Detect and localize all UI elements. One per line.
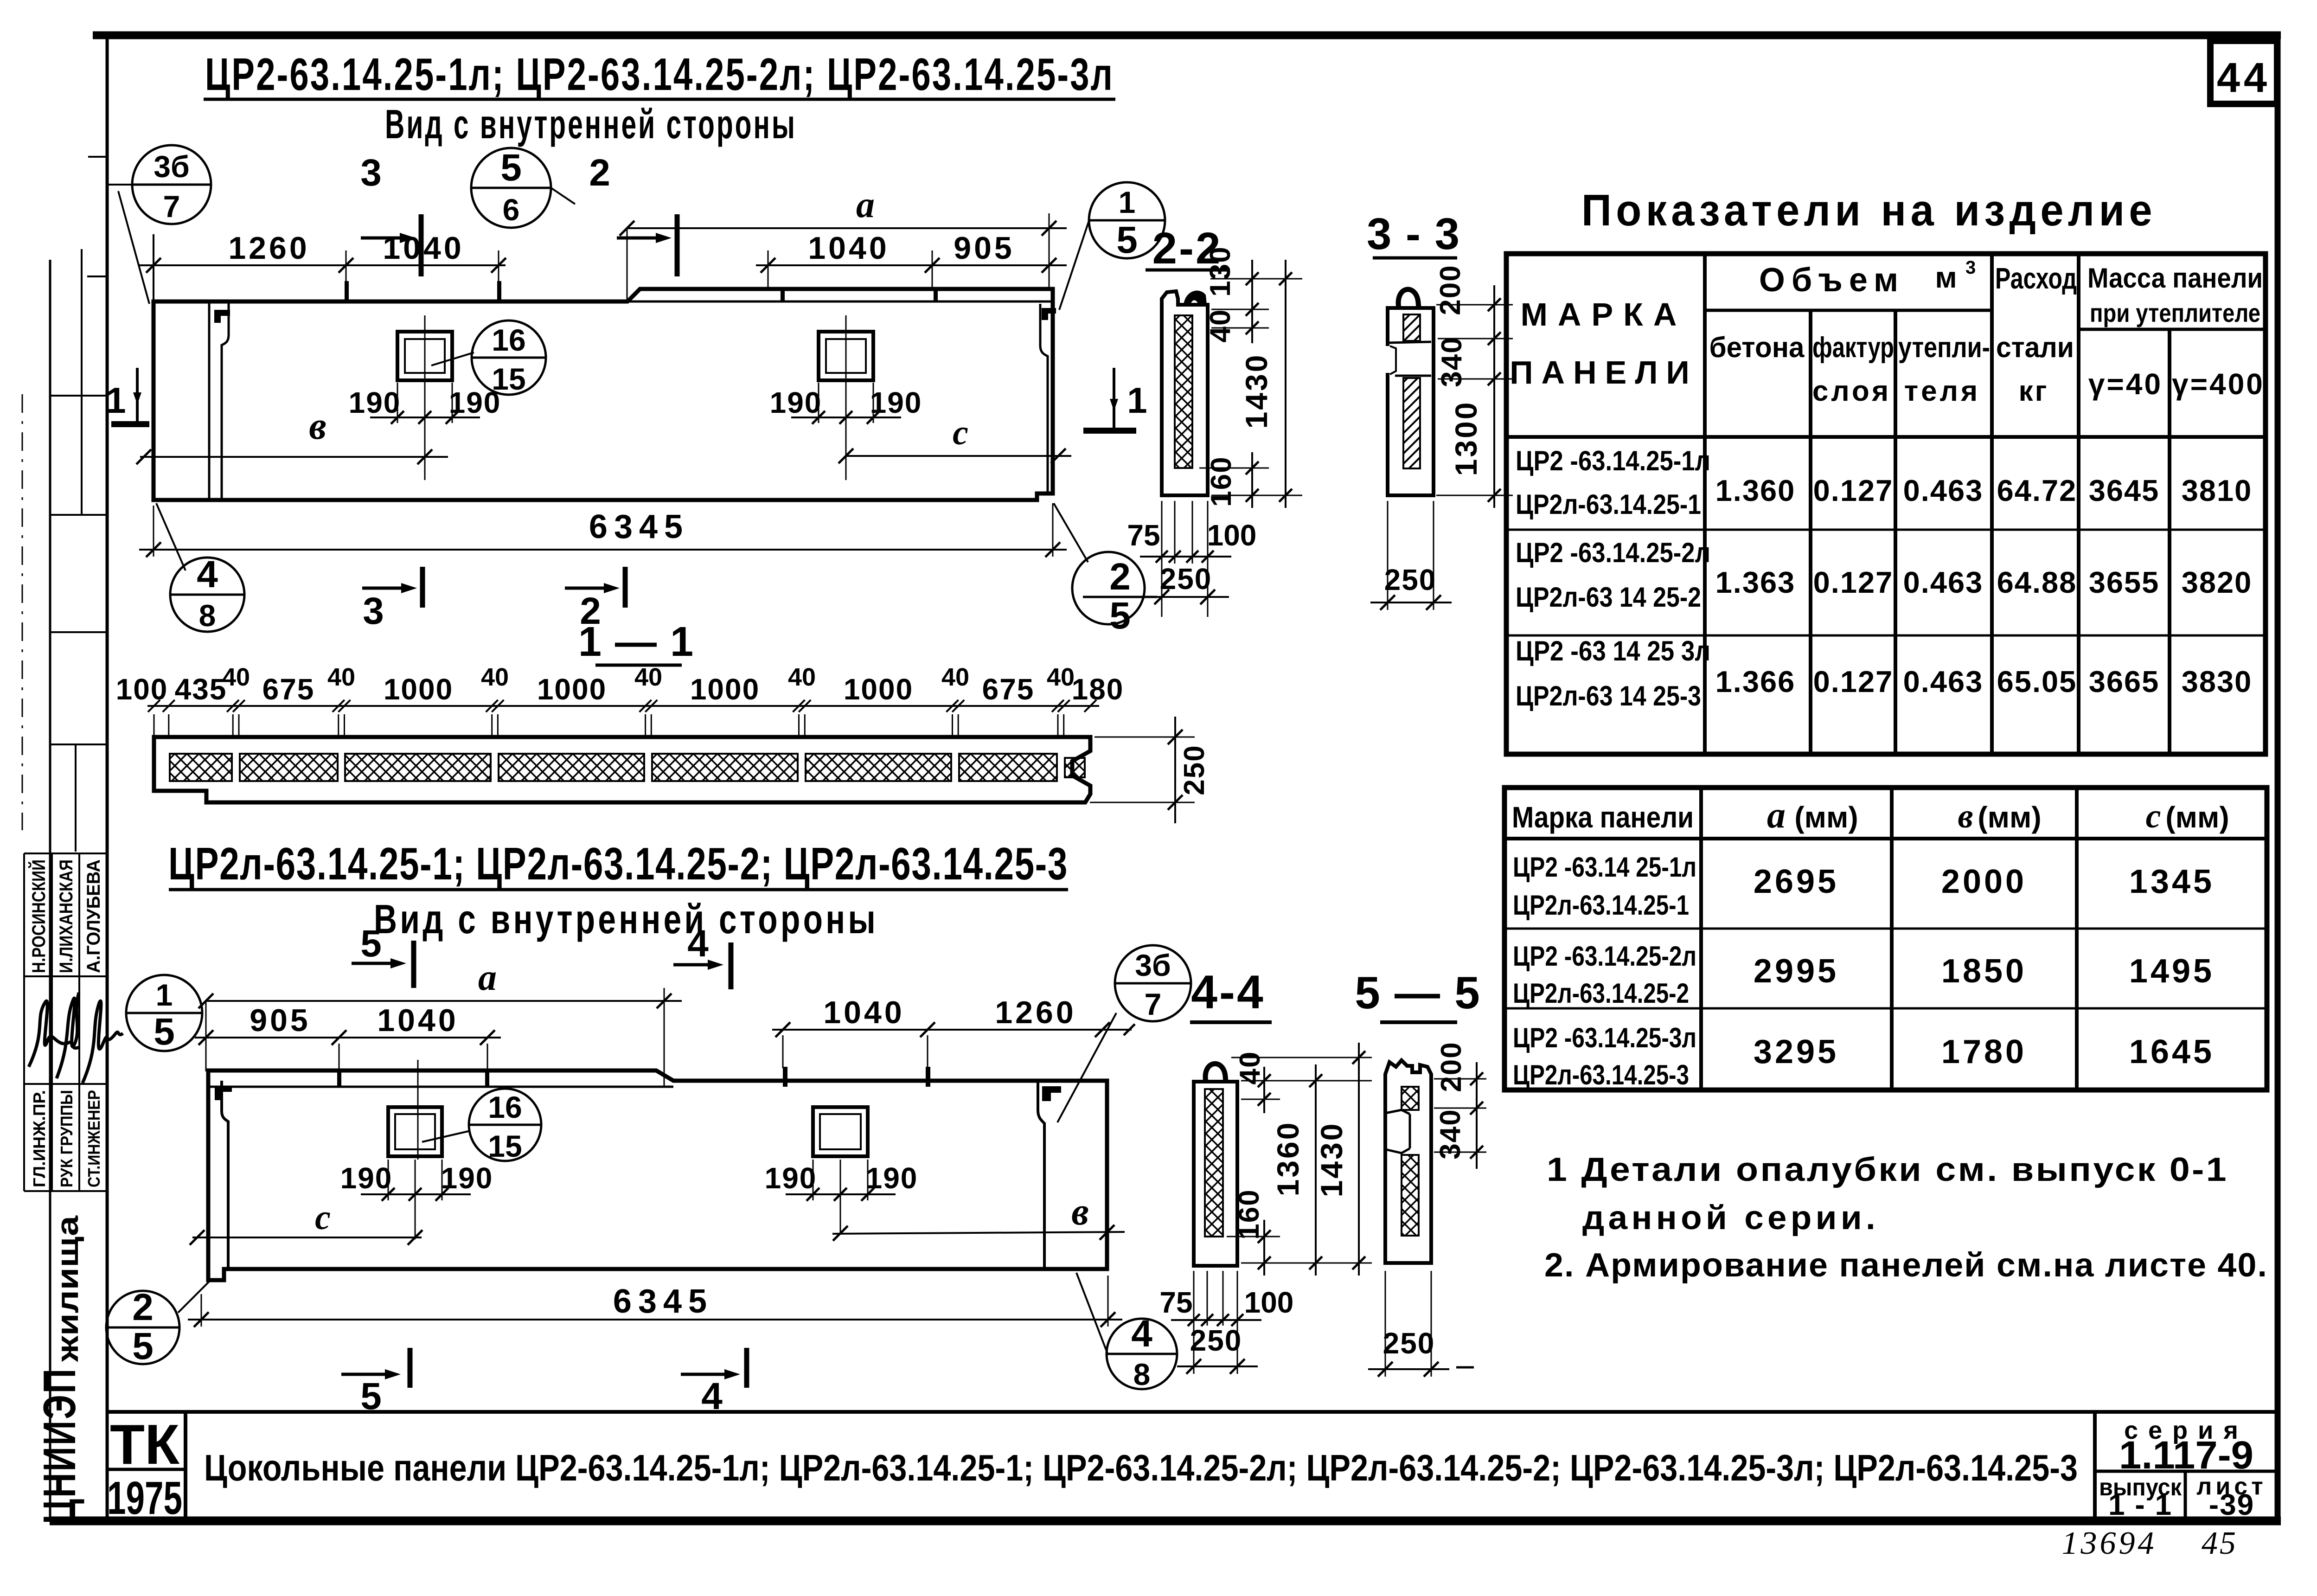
svg-text:0.463: 0.463 bbox=[1903, 665, 1984, 699]
panel P1 top edge tick bars bbox=[345, 281, 349, 301]
svg-text:СТ.ИНЖЕНЕР: СТ.ИНЖЕНЕР bbox=[84, 1090, 103, 1187]
section 5-5 dim below (250) bbox=[1368, 1271, 1449, 1377]
svg-text:5: 5 bbox=[154, 1011, 175, 1053]
leader circle 2/5 (P2) bbox=[178, 1281, 210, 1313]
callout circle 4/8 (P1 bottom-left) bbox=[170, 553, 244, 633]
svg-text:435: 435 bbox=[175, 673, 227, 706]
svg-text:ЦР2 -63 14 25 3л: ЦР2 -63 14 25 3л bbox=[1516, 635, 1710, 667]
svg-text:бетона: бетона bbox=[1709, 332, 1805, 364]
section mark 2 (top) bbox=[589, 152, 677, 276]
svg-text:1000: 1000 bbox=[690, 673, 760, 706]
svg-text:3б: 3б bbox=[1135, 948, 1171, 982]
svg-text:200: 200 bbox=[1435, 1041, 1467, 1092]
svg-text:2. Армирование панелей см.на л: 2. Армирование панелей см.на листе 40. bbox=[1544, 1247, 2268, 1284]
svg-text:Марка панели: Марка панели bbox=[1512, 801, 1694, 834]
svg-text:γ=40: γ=40 bbox=[2088, 367, 2163, 401]
svg-text:2995: 2995 bbox=[1754, 953, 1839, 990]
svg-text:ЦР2 -63.14 25-1л: ЦР2 -63.14 25-1л bbox=[1513, 852, 1696, 883]
svg-text:40: 40 bbox=[1204, 309, 1236, 343]
leader to circle 3б/7 bbox=[108, 185, 149, 304]
svg-text:данной серии.: данной серии. bbox=[1582, 1199, 1879, 1237]
title block выпуск cell bbox=[2099, 1471, 2185, 1521]
dim 190/190 at Q1 bbox=[340, 1160, 493, 1239]
svg-text:1040: 1040 bbox=[823, 995, 904, 1030]
svg-text:4-4: 4-4 bbox=[1191, 966, 1265, 1019]
svg-text:1495: 1495 bbox=[2129, 953, 2215, 990]
section 3-3 lower insulation strip bbox=[1403, 378, 1420, 468]
panel P1 top surface line under facing strip bbox=[627, 301, 1053, 303]
svg-text:Вид с внутренней стороны: Вид с внутренней стороны bbox=[374, 896, 878, 942]
svg-text:Масса панели: Масса панели bbox=[2087, 263, 2263, 294]
sheet frame top border bbox=[93, 32, 2281, 39]
svg-text:ЦР2л-63.14.25-1: ЦР2л-63.14.25-1 bbox=[1513, 890, 1689, 921]
panel P1 right end joint profile bbox=[1040, 304, 1048, 494]
svg-text:1975: 1975 bbox=[107, 1472, 182, 1524]
svg-text:1.366: 1.366 bbox=[1715, 665, 1796, 699]
svg-text:8: 8 bbox=[199, 598, 216, 633]
svg-text:3б: 3б bbox=[154, 149, 189, 184]
title block ТК/1975 box bbox=[107, 1412, 186, 1524]
svg-text:-39: -39 bbox=[2209, 1488, 2255, 1521]
dim line 1260/1040 (P1 top-left) bbox=[139, 231, 506, 301]
svg-text:1040: 1040 bbox=[377, 1003, 458, 1038]
svg-text:7: 7 bbox=[1145, 987, 1162, 1021]
svg-text:с: с bbox=[2146, 797, 2161, 835]
leader Q1 to callout 16/15 bbox=[422, 1131, 470, 1142]
svg-text:180: 180 bbox=[1072, 673, 1124, 706]
left margin fold dash-dot line bbox=[22, 394, 23, 830]
svg-text:6: 6 bbox=[503, 192, 520, 227]
leader circle 4/8 (P2) bbox=[1076, 1273, 1107, 1353]
svg-text:8: 8 bbox=[1133, 1357, 1151, 1391]
left margin rule y1110 bbox=[50, 514, 107, 516]
section label 4-4 bbox=[1190, 966, 1272, 1022]
opening square O1 with frame bbox=[397, 332, 452, 380]
svg-text:ПАНЕЛИ: ПАНЕЛИ bbox=[1510, 354, 1698, 391]
callout circle 5/6 bbox=[471, 147, 575, 228]
svg-text:3: 3 bbox=[363, 590, 384, 632]
svg-text:Н.РОСИНСКИЙ: Н.РОСИНСКИЙ bbox=[28, 859, 49, 973]
svg-text:ЦР2л-63 14 25-3: ЦР2л-63 14 25-3 bbox=[1516, 680, 1701, 711]
svg-text:905: 905 bbox=[250, 1003, 310, 1038]
svg-text:3: 3 bbox=[1965, 257, 1976, 278]
svg-text:2: 2 bbox=[1109, 556, 1131, 598]
svg-text:утепли-: утепли- bbox=[1898, 332, 1990, 364]
svg-text:фактур: фактур bbox=[1812, 332, 1894, 364]
svg-text:100: 100 bbox=[116, 673, 168, 706]
section mark 4 (bottom) bbox=[681, 1348, 747, 1417]
svg-text:44: 44 bbox=[2217, 55, 2271, 101]
svg-text:ЦР2л-63.14.25-1; ЦР2л-63.14.2: ЦР2л-63.14.25-1; ЦР2л-63.14.25-2; ЦР2л-6… bbox=[168, 838, 1068, 889]
svg-text:1.363: 1.363 bbox=[1715, 565, 1796, 599]
section label 3-3 bbox=[1367, 209, 1460, 259]
dim c (P1) bbox=[838, 413, 1071, 463]
svg-text:ЦР2л-63.14.25-3: ЦР2л-63.14.25-3 bbox=[1513, 1059, 1689, 1090]
panel P2 outline bbox=[208, 1070, 1107, 1280]
svg-text:100: 100 bbox=[1207, 519, 1257, 552]
left margin tick y576 bbox=[82, 249, 107, 276]
svg-text:190: 190 bbox=[349, 386, 401, 419]
svg-text:16: 16 bbox=[488, 1090, 522, 1124]
dim line a (P2) bbox=[198, 957, 682, 1087]
svg-text:1300: 1300 bbox=[1449, 401, 1483, 476]
svg-text:γ=400: γ=400 bbox=[2172, 367, 2265, 401]
section 5-5 top insulation piece bbox=[1402, 1087, 1419, 1110]
svg-text:340: 340 bbox=[1434, 1109, 1466, 1159]
section marker 1 (right of P1) bbox=[1083, 368, 1147, 434]
svg-text:2000: 2000 bbox=[1941, 863, 2027, 900]
table 2 header a(мм) bbox=[1767, 795, 1858, 836]
svg-text:(мм): (мм) bbox=[1794, 801, 1858, 834]
svg-text:a: a bbox=[1767, 795, 1786, 836]
svg-text:1000: 1000 bbox=[384, 673, 453, 706]
panel P1 facing strip joint bars bbox=[781, 288, 785, 301]
svg-text:ЦР2-63.14.25-1л; ЦР2-63.14.25-: ЦР2-63.14.25-1л; ЦР2-63.14.25-2л; ЦР2-63… bbox=[205, 49, 1114, 100]
leader circle 1/5 to panel corner bbox=[1059, 219, 1089, 310]
svg-text:1360: 1360 bbox=[1271, 1121, 1305, 1197]
svg-text:1: 1 bbox=[156, 978, 173, 1012]
dim line 1040/905 (P1 top-right) bbox=[756, 231, 1067, 289]
svg-text:4: 4 bbox=[197, 553, 218, 596]
svg-text:3: 3 bbox=[360, 152, 382, 194]
svg-text:1 — 1: 1 — 1 bbox=[578, 619, 694, 665]
dim 190/190 at Q2 bbox=[765, 1160, 918, 1234]
svg-text:ЦР2 -63.14.25-2л: ЦР2 -63.14.25-2л bbox=[1513, 941, 1696, 972]
svg-text:160: 160 bbox=[1205, 456, 1237, 506]
table 2 header с(мм) bbox=[2146, 797, 2229, 835]
svg-text:И.ЛИХАНСКАЯ: И.ЛИХАНСКАЯ bbox=[56, 859, 77, 973]
stamp signature 3 bbox=[83, 1001, 123, 1083]
svg-text:1430: 1430 bbox=[1314, 1122, 1349, 1198]
leader circle 4/8 bbox=[156, 503, 186, 570]
svg-text:250: 250 bbox=[1178, 744, 1210, 795]
svg-text:160: 160 bbox=[1233, 1189, 1265, 1239]
left margin inner verticals bbox=[81, 260, 83, 515]
sheet frame bottom border bbox=[50, 1517, 2281, 1525]
svg-text:64.88: 64.88 bbox=[1997, 565, 2077, 599]
panel P2 facing strip joint bars bbox=[337, 1070, 341, 1087]
section mark 4 (top) bbox=[673, 923, 731, 989]
section mark 2 (bottom) bbox=[565, 567, 625, 632]
svg-text:675: 675 bbox=[262, 673, 315, 706]
svg-text:3810: 3810 bbox=[2182, 474, 2253, 507]
svg-text:675: 675 bbox=[982, 673, 1035, 706]
panel P1 left end lifting hook bbox=[214, 310, 230, 323]
svg-text:3665: 3665 bbox=[2089, 665, 2160, 699]
svg-text:40: 40 bbox=[941, 663, 969, 691]
svg-text:2: 2 bbox=[589, 152, 610, 194]
svg-text:1.117-9: 1.117-9 bbox=[2119, 1433, 2253, 1477]
svg-text:с: с bbox=[953, 413, 968, 452]
svg-text:5: 5 bbox=[1116, 219, 1138, 261]
svg-text:0.463: 0.463 bbox=[1903, 565, 1984, 599]
svg-text:1430: 1430 bbox=[1239, 353, 1274, 429]
svg-text:1 Детали опалубки см. выпуск: 1 Детали опалубки см. выпуск 0-1 bbox=[1547, 1151, 2228, 1188]
callout circle 16/15 bbox=[472, 320, 546, 396]
section 2-2 lifting hook bbox=[1184, 291, 1207, 305]
svg-text:16: 16 bbox=[492, 323, 525, 357]
svg-text:40: 40 bbox=[222, 663, 250, 691]
svg-text:340: 340 bbox=[1436, 336, 1468, 387]
section mark 3 (bottom) bbox=[362, 567, 422, 632]
sheet number box 44 bbox=[2210, 41, 2277, 104]
svg-text:40: 40 bbox=[634, 663, 662, 691]
svg-text:a: a bbox=[478, 957, 497, 998]
dim line a (P1) bbox=[620, 185, 1067, 301]
svg-text:3830: 3830 bbox=[2182, 665, 2253, 699]
section 2-2 dims right (130/40/1430/160) bbox=[1199, 246, 1302, 508]
svg-text:1000: 1000 bbox=[537, 673, 607, 706]
section 5-5 lower insulation strip bbox=[1402, 1155, 1419, 1236]
section 4-4 dims below (75/100/250) bbox=[1159, 1271, 1293, 1374]
title block top line bbox=[107, 1410, 2278, 1414]
svg-text:6345: 6345 bbox=[613, 1283, 713, 1320]
slab 1-1 insulation strips bbox=[170, 754, 1085, 781]
panel P2 right end lifting hook bbox=[1042, 1086, 1061, 1101]
section 4-4 insulation strip bbox=[1205, 1089, 1223, 1237]
svg-text:1260: 1260 bbox=[228, 231, 309, 266]
svg-text:ТК: ТК bbox=[110, 1413, 180, 1476]
sheet frame left border bbox=[106, 35, 109, 1521]
section 3-3 dims right (200/340/1300) bbox=[1434, 264, 1513, 508]
svg-text:ЦР2 -63.14.25-2л: ЦР2 -63.14.25-2л bbox=[1516, 537, 1710, 568]
leader circle 3б/7 to panel joint bbox=[1057, 1013, 1116, 1122]
callout circle 16/15 (P2) bbox=[469, 1089, 541, 1163]
section label 2-2 bbox=[1146, 224, 1230, 273]
svg-text:3 - 3: 3 - 3 bbox=[1367, 209, 1460, 259]
section 2-2 body bbox=[1162, 291, 1208, 495]
svg-text:Показатели на изделие: Показатели на изделие bbox=[1581, 186, 2157, 235]
svg-text:3820: 3820 bbox=[2182, 565, 2253, 599]
svg-text:ЦР2л-63 14 25-2: ЦР2л-63 14 25-2 bbox=[1516, 582, 1701, 613]
svg-text:1: 1 bbox=[1127, 380, 1147, 421]
svg-text:100: 100 bbox=[1244, 1286, 1294, 1319]
svg-text:слоя: слоя bbox=[1812, 375, 1891, 407]
svg-text:Вид с внутренней стороны: Вид с внутренней стороны bbox=[385, 101, 797, 147]
leader circle 2/5 bbox=[1054, 503, 1088, 562]
svg-text:А.ГОЛУБЕВА: А.ГОЛУБЕВА bbox=[83, 859, 104, 973]
svg-text:1: 1 bbox=[1119, 185, 1136, 219]
svg-text:стали: стали bbox=[1996, 332, 2074, 364]
svg-text:1000: 1000 bbox=[844, 673, 913, 706]
svg-text:1780: 1780 bbox=[1941, 1033, 2027, 1070]
svg-text:4: 4 bbox=[1131, 1313, 1152, 1355]
table 1 grid bbox=[1506, 254, 2266, 754]
svg-text:130: 130 bbox=[1204, 246, 1236, 296]
svg-text:65.05: 65.05 bbox=[1997, 665, 2077, 699]
left margin vertical rule bbox=[49, 260, 51, 1521]
svg-text:5: 5 bbox=[500, 147, 522, 189]
svg-text:190: 190 bbox=[441, 1161, 493, 1195]
svg-text:190: 190 bbox=[765, 1161, 817, 1195]
svg-text:905: 905 bbox=[954, 231, 1014, 266]
svg-text:РУК ГРУППЫ: РУК ГРУППЫ bbox=[57, 1090, 76, 1187]
svg-text:жилища: жилища bbox=[50, 1215, 84, 1362]
section 5-5 dims right (200/340) bbox=[1434, 1041, 1486, 1169]
svg-text:250: 250 bbox=[1190, 1324, 1242, 1357]
svg-text:ЦР2 -63.14.25-3л: ЦР2 -63.14.25-3л bbox=[1513, 1022, 1696, 1053]
left margin rule y853 bbox=[50, 395, 107, 397]
title underline bbox=[204, 98, 1115, 101]
svg-text:5: 5 bbox=[132, 1325, 154, 1367]
signature stamp block frame bbox=[24, 853, 107, 1191]
opening square O2 with frame bbox=[819, 332, 873, 380]
callout circle 1/5 (right) bbox=[1089, 182, 1165, 261]
svg-text:в: в bbox=[1958, 797, 1973, 835]
svg-text:Расход: Расход bbox=[1995, 262, 2077, 295]
svg-text:5: 5 bbox=[360, 923, 382, 965]
slab section 1-1 outline bbox=[154, 737, 1090, 802]
callout circle 1/5 (P2 left) bbox=[126, 975, 202, 1053]
dim в (P1) bbox=[136, 404, 448, 464]
svg-text:15: 15 bbox=[488, 1129, 522, 1163]
svg-text:4: 4 bbox=[687, 923, 709, 965]
svg-text:45: 45 bbox=[2202, 1525, 2238, 1561]
section 5-5 body bbox=[1385, 1060, 1431, 1263]
svg-text:40: 40 bbox=[1047, 663, 1075, 691]
sheet frame right border bbox=[2275, 35, 2281, 1525]
panel P1 right end lifting hook bbox=[1042, 308, 1056, 320]
svg-text:1645: 1645 bbox=[2129, 1033, 2215, 1070]
panel P2 top surface line under facing strip bbox=[208, 1086, 673, 1088]
left margin rule y1363 bbox=[50, 631, 107, 633]
svg-text:190: 190 bbox=[770, 386, 822, 419]
svg-text:1.360: 1.360 bbox=[1715, 474, 1796, 507]
section label 5-5 bbox=[1355, 967, 1480, 1022]
section 3-3 joint void bbox=[1388, 342, 1431, 343]
dim 250 (right of 1-1) bbox=[1090, 717, 1210, 823]
svg-text:75: 75 bbox=[1159, 1286, 1192, 1319]
svg-text:40: 40 bbox=[788, 663, 816, 691]
svg-text:5 — 5: 5 — 5 bbox=[1355, 967, 1480, 1018]
title block серия cell bbox=[2095, 1412, 2278, 1521]
section 4-4 body bbox=[1194, 1082, 1237, 1266]
section 2-2 insulation strip bbox=[1175, 315, 1192, 468]
section label 1-1 bbox=[578, 619, 694, 665]
svg-text:6345: 6345 bbox=[589, 508, 689, 545]
svg-text:3295: 3295 bbox=[1754, 1033, 1839, 1070]
section 2-2 dims below (75/100/250) bbox=[1127, 501, 1256, 617]
svg-text:0.463: 0.463 bbox=[1903, 474, 1984, 507]
left margin rule y1605 bbox=[50, 744, 107, 745]
svg-text:75: 75 bbox=[1127, 519, 1160, 552]
section mark 5 (top) bbox=[352, 923, 414, 988]
svg-text:a: a bbox=[856, 185, 875, 225]
svg-text:в: в bbox=[1071, 1190, 1089, 1233]
section 3-3 dim below (250) bbox=[1370, 501, 1452, 610]
svg-text:в: в bbox=[309, 404, 326, 448]
svg-text:ЦР2л-63.14.25-1: ЦР2л-63.14.25-1 bbox=[1516, 489, 1701, 520]
callout circle 2/5 (P1 bottom-right) bbox=[1072, 552, 1157, 637]
dim line 905/1040 (P2 top-left) bbox=[195, 1003, 501, 1071]
dim 6345 (P2) bbox=[188, 1276, 1122, 1327]
callout circle 3б/7 bbox=[132, 145, 211, 224]
dim c (P2) bbox=[190, 1198, 422, 1245]
svg-text:40: 40 bbox=[1234, 1051, 1266, 1085]
svg-text:0.127: 0.127 bbox=[1813, 474, 1894, 507]
small dash mark bbox=[1456, 1366, 1474, 1369]
sq1 P2 centre line bbox=[417, 1060, 419, 1160]
svg-text:190: 190 bbox=[340, 1161, 393, 1195]
svg-text:с: с bbox=[315, 1198, 331, 1237]
svg-text:ЦР2л-63.14.25-2: ЦР2л-63.14.25-2 bbox=[1513, 978, 1689, 1009]
svg-text:1260: 1260 bbox=[995, 995, 1076, 1030]
svg-text:7: 7 bbox=[163, 189, 180, 224]
section marker 1 (left of P1) bbox=[106, 368, 149, 427]
svg-text:теля: теля bbox=[1904, 375, 1980, 407]
callout circle 4/8 (P2 bottom-right) bbox=[1107, 1313, 1177, 1391]
svg-text:1345: 1345 bbox=[2129, 863, 2215, 900]
panel P2 left end lifting hook bbox=[215, 1086, 232, 1100]
svg-text:250: 250 bbox=[1384, 563, 1437, 596]
panel P2 top edge tick bars bbox=[783, 1067, 787, 1087]
svg-text:ГЛ.ИНЖ.ПР.: ГЛ.ИНЖ.ПР. bbox=[30, 1090, 49, 1187]
panel P1 left end joint profile bbox=[209, 301, 229, 500]
stamp signature 1 bbox=[29, 1001, 79, 1067]
title underline 2 bbox=[169, 888, 1068, 891]
section 4-4 lifting loop bbox=[1205, 1064, 1226, 1082]
opening square Q2 (P2) bbox=[813, 1107, 868, 1156]
svg-text:Объем: Объем bbox=[1759, 262, 1905, 299]
svg-text:13694: 13694 bbox=[2062, 1525, 2157, 1561]
left margin tick y338 bbox=[88, 156, 107, 158]
svg-text:3645: 3645 bbox=[2089, 474, 2160, 507]
svg-text:1: 1 bbox=[106, 380, 126, 421]
dim 190/190 at O1 bbox=[349, 315, 501, 480]
section 4-4 dims right (40/160/1360/1430) bbox=[1227, 1043, 1372, 1276]
section 3-3 body bbox=[1388, 308, 1434, 495]
section 3-3 top insulation piece bbox=[1403, 314, 1420, 341]
svg-text:200: 200 bbox=[1434, 264, 1466, 315]
dim в (P2) bbox=[832, 1190, 1125, 1241]
dim 190/190 at O2 bbox=[770, 315, 922, 480]
section mark 3 (top) bbox=[360, 152, 421, 276]
svg-text:МАРКА: МАРКА bbox=[1521, 296, 1687, 333]
svg-text:кг: кг bbox=[2019, 375, 2049, 407]
opening square Q1 (P2) bbox=[388, 1107, 442, 1156]
section mark 5 (bottom) bbox=[341, 1348, 410, 1417]
svg-text:40: 40 bbox=[481, 663, 509, 691]
dim 6345 (P1) bbox=[139, 503, 1067, 557]
dim line 1040/1260 (P2 top-right) bbox=[772, 995, 1135, 1068]
panel P1 outline bbox=[154, 289, 1053, 500]
svg-text:1040: 1040 bbox=[808, 231, 889, 266]
svg-text:Цокольные панели ЦР2-63.14.25-: Цокольные панели ЦР2-63.14.25-1л; ЦР2л-6… bbox=[204, 1447, 2078, 1488]
svg-text:5: 5 bbox=[1109, 595, 1131, 637]
svg-text:250: 250 bbox=[1383, 1327, 1435, 1360]
svg-text:3655: 3655 bbox=[2089, 565, 2160, 599]
svg-text:при утеплителе: при утеплителе bbox=[2090, 298, 2260, 327]
svg-text:0.127: 0.127 bbox=[1813, 665, 1894, 699]
callout circle 2/5 (P2 bottom-left) bbox=[106, 1286, 179, 1367]
callout circle 3б/7 (P2 right) bbox=[1115, 945, 1191, 1021]
svg-text:1850: 1850 bbox=[1941, 953, 2027, 990]
svg-text:1040: 1040 bbox=[383, 231, 464, 266]
svg-text:ЦНИИЭП: ЦНИИЭП bbox=[34, 1367, 85, 1524]
table 2 grid bbox=[1504, 788, 2267, 1090]
svg-text:м: м bbox=[1935, 261, 1957, 294]
leader O1 to callout 16/15 bbox=[431, 353, 474, 365]
svg-text:64.72: 64.72 bbox=[1997, 474, 2077, 507]
svg-text:(мм): (мм) bbox=[1978, 801, 2041, 834]
svg-text:ЦР2 -63.14.25-1л: ЦР2 -63.14.25-1л bbox=[1516, 445, 1710, 476]
svg-text:0.127: 0.127 bbox=[1813, 565, 1894, 599]
svg-text:40: 40 bbox=[327, 663, 355, 691]
svg-text:1 - 1: 1 - 1 bbox=[2108, 1488, 2172, 1521]
panel P2 right end joint profile bbox=[1038, 1081, 1044, 1269]
dim chain 1-1 (100 435 40 675 40 1000 ... 180) bbox=[116, 663, 1124, 737]
svg-text:2695: 2695 bbox=[1754, 863, 1839, 900]
